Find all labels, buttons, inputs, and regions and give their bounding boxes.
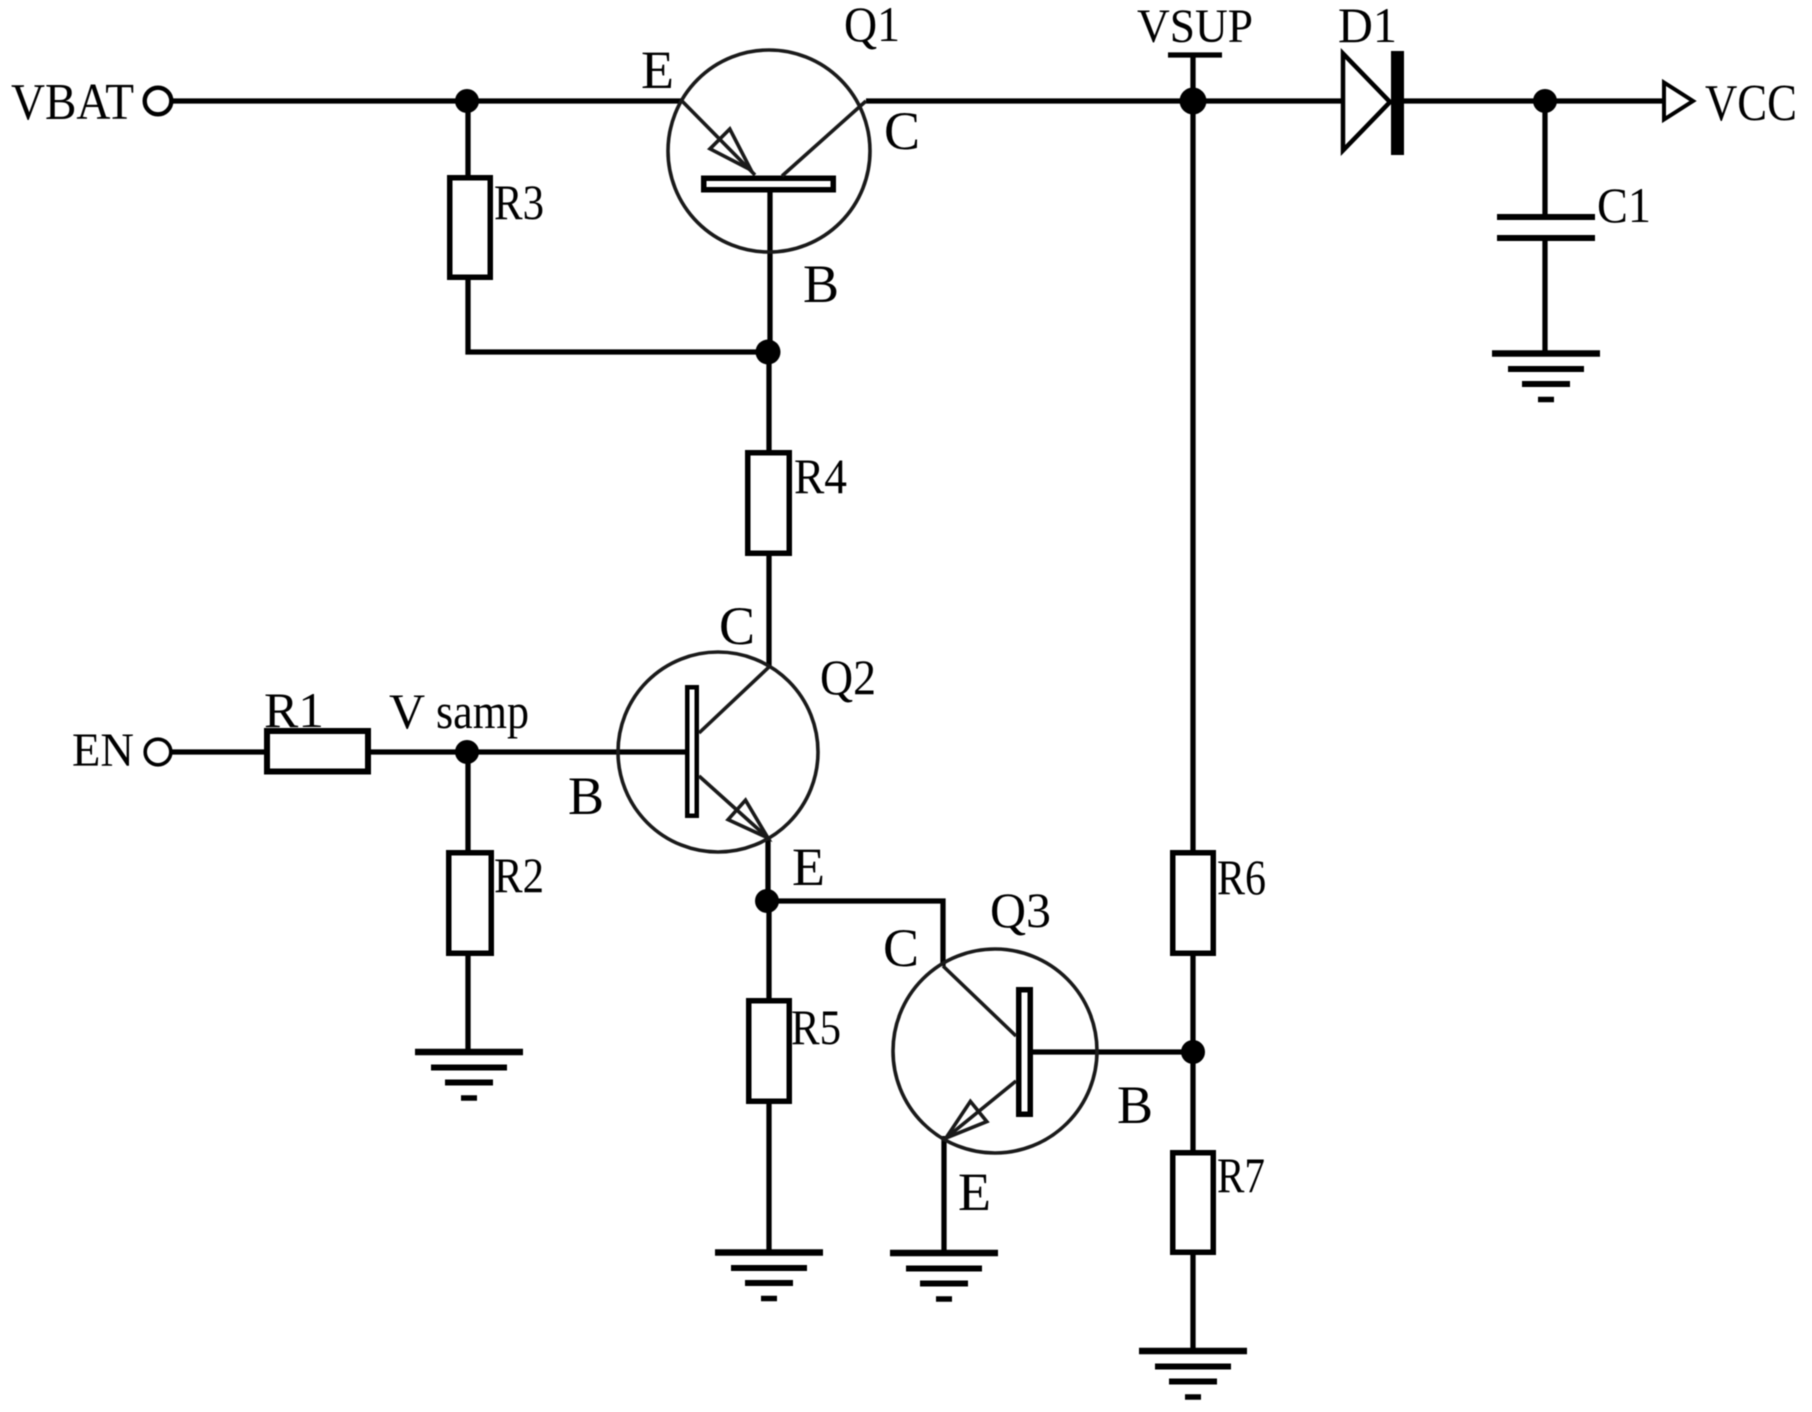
svg-text:Q3: Q3 (990, 882, 1051, 938)
svg-text:R5: R5 (791, 999, 841, 1055)
svg-text:R3: R3 (494, 174, 544, 230)
svg-text:samp: samp (436, 683, 529, 739)
svg-text:E: E (958, 1162, 991, 1222)
svg-text:V: V (389, 683, 425, 739)
svg-text:D1: D1 (1338, 0, 1397, 53)
svg-text:EN: EN (72, 724, 134, 777)
svg-text:R4: R4 (794, 448, 847, 504)
svg-text:R6: R6 (1217, 849, 1266, 905)
svg-text:B: B (1117, 1075, 1153, 1135)
svg-text:VBAT: VBAT (11, 74, 134, 131)
svg-text:B: B (568, 766, 604, 826)
svg-text:B: B (803, 254, 839, 314)
svg-text:E: E (792, 837, 825, 897)
svg-text:C: C (884, 101, 920, 161)
svg-text:C: C (883, 918, 919, 978)
svg-text:Q2: Q2 (820, 649, 876, 705)
svg-text:C1: C1 (1597, 177, 1651, 233)
svg-text:R1: R1 (264, 682, 324, 738)
svg-text:R2: R2 (494, 847, 544, 903)
svg-text:C: C (719, 596, 755, 656)
svg-text:VSUP: VSUP (1137, 0, 1253, 53)
svg-text:Q1: Q1 (844, 0, 900, 52)
svg-text:VCC: VCC (1705, 75, 1797, 132)
svg-text:E: E (641, 40, 674, 100)
svg-text:R7: R7 (1217, 1147, 1265, 1203)
